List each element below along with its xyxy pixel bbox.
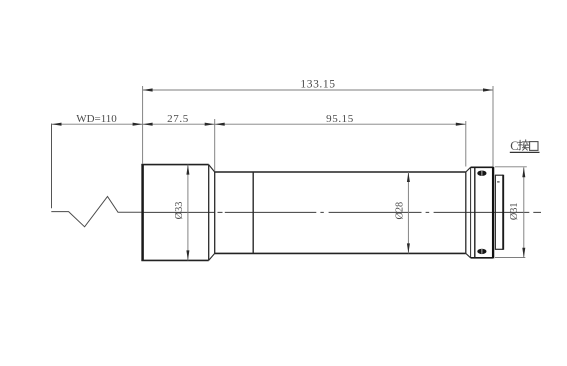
flange rear face xyxy=(492,167,494,259)
svg-text:95.15: 95.15 xyxy=(326,113,354,125)
chamfer top xyxy=(209,165,215,172)
C-mount thread cylinder xyxy=(495,175,503,250)
flange chamfer bottom xyxy=(466,253,471,257)
main tube left edge xyxy=(214,172,216,253)
glyph kou xyxy=(530,142,538,151)
front barrel top edge xyxy=(141,164,208,166)
flange groove line 1 xyxy=(470,167,472,257)
dimension row WD=110 / 27.5 / 95.15 xyxy=(52,119,466,171)
dimension D31 xyxy=(495,167,527,258)
flange chamfer top xyxy=(466,167,471,172)
front barrel right joint xyxy=(208,165,210,261)
flange left face xyxy=(465,172,467,253)
flange bottom edge xyxy=(471,257,493,259)
tube joint line xyxy=(252,172,254,253)
thread tick xyxy=(497,181,500,183)
svg-text:WD=110: WD=110 xyxy=(76,113,117,125)
front barrel left face xyxy=(141,164,144,261)
flange top edge xyxy=(471,166,493,168)
flange groove line 2 xyxy=(474,167,476,257)
svg-text:27.5: 27.5 xyxy=(167,113,189,125)
screw bottom xyxy=(477,249,486,254)
front barrel bottom edge xyxy=(141,259,208,261)
label C-mount xyxy=(510,139,540,153)
screw top xyxy=(477,171,486,176)
dimension D33 xyxy=(174,165,189,261)
svg-text:Ø31: Ø31 xyxy=(509,202,520,220)
centerline axis dash-dot xyxy=(143,211,541,213)
dimension 133.15 xyxy=(143,86,493,167)
svg-text:Ø28: Ø28 xyxy=(395,202,406,220)
dimension D28 xyxy=(395,172,410,253)
chamfer bottom xyxy=(209,253,215,260)
object plane line xyxy=(51,124,53,209)
svg-text:C: C xyxy=(510,139,518,153)
svg-text:Ø33: Ø33 xyxy=(174,202,185,220)
svg-text:133.15: 133.15 xyxy=(300,79,335,91)
main tube top edge xyxy=(215,171,466,173)
glyph jie xyxy=(519,140,529,150)
underline xyxy=(510,151,540,153)
wire zigzag optical axis break xyxy=(51,197,142,227)
main tube bottom edge xyxy=(215,252,466,254)
